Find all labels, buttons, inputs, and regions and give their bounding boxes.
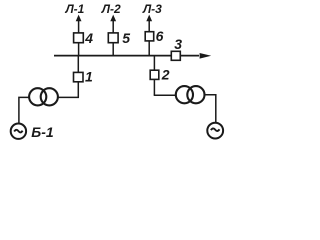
breaker 6 (145, 32, 154, 41)
line Л-1 arrow (76, 15, 82, 22)
line Л-2 arrow (110, 15, 116, 22)
svg-text:3: 3 (174, 36, 182, 52)
wire breaker 1 to transformer T1 (58, 96, 80, 98)
line Л-3 arrow (146, 15, 152, 22)
svg-text:6: 6 (156, 28, 164, 44)
wire bus to breaker 2 (153, 56, 155, 96)
svg-text:Л-3: Л-3 (142, 2, 162, 16)
generator Б-1 (11, 124, 26, 139)
wire transformer T2 to generator G2 (204, 95, 216, 124)
breaker 1 (74, 72, 84, 81)
svg-text:Б-1: Б-1 (31, 124, 54, 140)
breaker 2 (150, 70, 159, 79)
svg-text:Л-2: Л-2 (101, 2, 121, 16)
wire feeder Л-3 (148, 21, 150, 56)
wire bus to breaker 1 (77, 56, 79, 98)
svg-text:1: 1 (85, 69, 93, 85)
bus outgoing arrow (200, 53, 212, 59)
transformer T1 (29, 88, 58, 105)
wire feeder Л-1 (78, 21, 80, 56)
svg-text:Л-1: Л-1 (64, 2, 84, 16)
wire feeder Л-2 (112, 21, 114, 56)
wire transformer T1 to generator Б-1 (19, 97, 30, 124)
transformer T2 (176, 86, 205, 103)
busbar (54, 55, 199, 57)
generator G2 (207, 123, 223, 139)
breaker 3 (171, 51, 180, 60)
breaker 4 (74, 33, 84, 43)
svg-text:4: 4 (84, 30, 93, 46)
wire breaker 2 to transformer T2 (154, 94, 177, 96)
svg-text:5: 5 (122, 30, 130, 46)
svg-text:2: 2 (161, 67, 170, 83)
breaker 5 (108, 33, 118, 43)
